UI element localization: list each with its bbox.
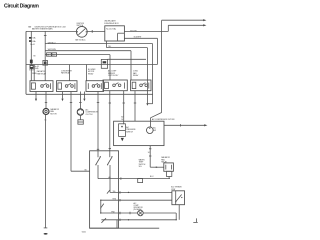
- wire fan relay to indicator feed: [168, 176, 170, 178]
- wire to thermostat 1: [107, 190, 172, 194]
- pressure sensor circle: [147, 127, 157, 134]
- inline connector on indicator feed: [138, 178, 143, 182]
- wire relay4 to pressure switch: [123, 91, 125, 125]
- relay row top bus: [26, 64, 157, 66]
- fuse 40A (left column): [29, 40, 32, 42]
- wire relay4 to A/C switch 2: [109, 91, 111, 158]
- svg-text:SWITCH: SWITCH: [126, 132, 133, 134]
- interior bus: [100, 200, 102, 213]
- svg-text:51: 51: [53, 55, 55, 57]
- left column notes: [30, 60, 33, 64]
- svg-text:FAN RELAY: FAN RELAY: [61, 72, 71, 75]
- entry tick: [109, 147, 111, 149]
- thermostat output: [178, 205, 180, 220]
- wire G vertical: [109, 55, 111, 80]
- pressure switch element: [119, 124, 126, 137]
- svg-text:FUSE/RELAY BOX: FUSE/RELAY BOX: [104, 22, 119, 25]
- relay 1: [30, 81, 53, 92]
- bottom edge wire: [116, 220, 118, 228]
- return wire: [101, 218, 176, 223]
- svg-text:IG SW: IG SW: [29, 70, 34, 72]
- drop stub with connector arrow 3: [83, 92, 85, 99]
- wire pressure box right to condenser fan: [164, 124, 205, 126]
- connector number boxes: [47, 53, 57, 57]
- svg-text:FAN RELAY: FAN RELAY: [37, 72, 47, 75]
- indicator to junction: [143, 212, 176, 214]
- indicator light wire: [101, 212, 138, 214]
- under-dash fuse/relay box: [105, 26, 125, 41]
- radiator fan relay (small): [164, 163, 174, 171]
- svg-text:Circuit Diagram: Circuit Diagram: [4, 3, 39, 9]
- relay 3: [86, 81, 104, 92]
- wire to A/C switch (left): [70, 92, 72, 172]
- wire bat feed down: [44, 31, 46, 80]
- svg-text:BLU/WHT: BLU/WHT: [134, 36, 142, 38]
- relay 2: [57, 81, 78, 92]
- svg-text:BLK/YEL: BLK/YEL: [130, 30, 137, 32]
- wire A diagonal: [151, 113, 162, 118]
- wire pressure box to fan relay: [149, 146, 151, 168]
- wire E vertical: [146, 48, 148, 104]
- switch contact 2: [107, 156, 113, 192]
- connector arrow below element: [121, 138, 124, 141]
- svg-text:No.41: No.41: [30, 44, 35, 46]
- svg-text:B5: B5: [85, 170, 87, 172]
- clutch thermal protector: [78, 115, 83, 124]
- under-hood fuse/relay box left edge: [25, 31, 27, 94]
- ground G201: [44, 228, 48, 235]
- fuse No.43 body: [30, 65, 39, 70]
- svg-text:WHT/GRN: WHT/GRN: [48, 49, 57, 51]
- svg-text:14: 14: [148, 152, 150, 154]
- wire E: [106, 41, 108, 48]
- wire to thermostat 2: [100, 199, 171, 209]
- svg-text:RELAY: RELAY: [133, 74, 139, 77]
- under-hood fuse/relay box bottom edge: [26, 93, 153, 95]
- thermostat right corner mark: [195, 218, 197, 222]
- switch contact 1: [95, 156, 101, 179]
- svg-text:CLUTCH RLY: CLUTCH RLY: [108, 75, 119, 77]
- diode block below relay: [166, 171, 171, 176]
- fuse box small on relay bus: [101, 59, 107, 68]
- wire G: [45, 54, 110, 56]
- ground wire left: [45, 115, 47, 228]
- relay 4: [103, 80, 127, 91]
- svg-text:BAT: BAT: [28, 25, 31, 28]
- svg-text:M: M: [34, 56, 36, 58]
- compressor clutch coil: [77, 109, 83, 115]
- A/C pressure switch box: [114, 121, 164, 145]
- wire relay3 to A/C switch: [97, 92, 99, 158]
- fuse block on bus: [43, 61, 48, 66]
- svg-text:G401: G401: [82, 231, 86, 233]
- A/C switch box: [90, 151, 119, 228]
- wire F white/green: [45, 50, 131, 52]
- fuse 50A (left column): [29, 37, 32, 39]
- wire H: [108, 58, 146, 60]
- svg-text:21: 21: [47, 55, 49, 57]
- wire relay5 to pressure box: [134, 91, 136, 122]
- drop stub with connector arrow 1: [35, 92, 37, 99]
- svg-text:SW: SW: [153, 130, 156, 132]
- radiator fan motor: [43, 109, 49, 115]
- svg-text:STAT: STAT: [171, 188, 175, 191]
- A/C indicator bulb: [138, 210, 144, 216]
- ignition switch: [75, 26, 87, 41]
- svg-text:(20A): (20A): [34, 67, 39, 70]
- svg-text:14: 14: [121, 119, 123, 121]
- svg-text:YEL: YEL: [113, 191, 116, 193]
- svg-text:CLUTCH: CLUTCH: [86, 114, 94, 116]
- compressor clutch wire: [79, 92, 81, 109]
- svg-text:A/C COMPRESSOR CUTOFF: A/C COMPRESSOR CUTOFF: [152, 118, 175, 121]
- wire C out of under-dash box: [124, 37, 157, 39]
- svg-text:RELAY: RELAY: [88, 72, 94, 75]
- radiator fan motor wire: [45, 92, 47, 109]
- svg-text:No.14 (7.5A): No.14 (7.5A): [106, 27, 116, 30]
- svg-text:WHT/BLU: WHT/BLU: [48, 42, 56, 44]
- wire D white/blue: [45, 43, 152, 45]
- wire F vertical: [130, 51, 132, 80]
- svg-text:BAT IG2 ACC: BAT IG2 ACC: [75, 38, 86, 41]
- svg-text:BATTERY STARTER MAIN: BATTERY STARTER MAIN: [32, 28, 53, 31]
- svg-text:YEL: YEL: [108, 46, 111, 48]
- under-hood fuse/relay box top edge / battery bus wire: [26, 30, 76, 32]
- relay 5: [131, 80, 151, 91]
- A/C thermostat box: [172, 191, 185, 205]
- wire B out of under-dash box: [124, 30, 168, 32]
- jog at 103.7: [147, 103, 152, 105]
- drop stub with connector arrow 2: [62, 92, 64, 99]
- svg-text:MOTOR: MOTOR: [50, 114, 57, 116]
- battery feed wire left: [30, 31, 32, 80]
- wire D vertical: [152, 44, 154, 104]
- relay feeds from bus: [33, 65, 35, 81]
- wire A top right: [162, 19, 204, 21]
